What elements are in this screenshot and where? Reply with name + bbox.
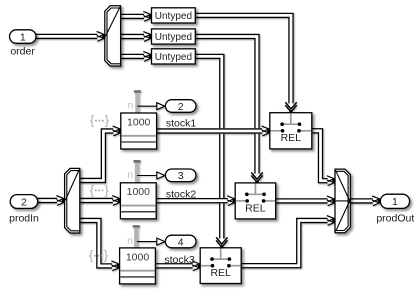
svg-text:stock2: stock2: [166, 188, 197, 200]
svg-text:2: 2: [21, 196, 27, 208]
svg-text:{: {: [90, 182, 95, 197]
svg-text:1: 1: [392, 196, 398, 208]
svg-text:3: 3: [178, 170, 184, 182]
svg-text:prodOut: prodOut: [376, 213, 414, 225]
svg-text:Untyped: Untyped: [155, 52, 192, 63]
svg-text:1000: 1000: [127, 186, 151, 198]
svg-text:order: order: [10, 46, 35, 58]
svg-text:Untyped: Untyped: [155, 32, 192, 43]
svg-text:REL: REL: [281, 132, 302, 144]
svg-text:n: n: [127, 235, 133, 247]
svg-text:2: 2: [178, 101, 184, 113]
svg-text:4: 4: [178, 236, 184, 248]
svg-text:1: 1: [20, 31, 26, 43]
svg-text:stock1: stock1: [166, 117, 197, 129]
svg-text:}: }: [105, 113, 110, 128]
svg-text:stock3: stock3: [164, 254, 195, 266]
svg-text:REL: REL: [245, 202, 266, 214]
svg-text:{: {: [90, 113, 95, 128]
svg-text:n: n: [128, 100, 134, 112]
svg-text:}: }: [105, 182, 110, 197]
svg-text:REL: REL: [210, 267, 231, 279]
svg-text:prodIn: prodIn: [9, 213, 39, 225]
svg-text:1000: 1000: [127, 116, 151, 128]
svg-text:}: }: [104, 248, 109, 263]
svg-text:n: n: [127, 169, 133, 181]
svg-text:Untyped: Untyped: [155, 11, 192, 22]
svg-text:1000: 1000: [126, 251, 150, 263]
svg-text:{: {: [89, 248, 94, 263]
